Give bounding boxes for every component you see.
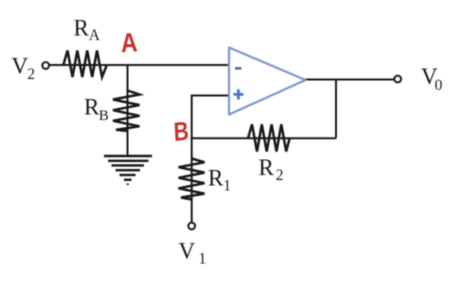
svg-text:B: B [173,116,190,147]
svg-text:R: R [208,165,224,190]
svg-text:A: A [89,27,101,44]
svg-text:B: B [99,108,109,124]
svg-text:1: 1 [223,178,231,195]
svg-text:1: 1 [199,251,207,268]
svg-text:R: R [259,155,275,180]
svg-text:0: 0 [435,77,443,94]
svg-text:V: V [179,239,196,264]
svg-text:2: 2 [27,66,35,83]
svg-text:R: R [84,95,100,120]
svg-text:A: A [120,28,138,59]
svg-text:V: V [12,53,29,78]
svg-text:R: R [74,15,90,40]
svg-text:2: 2 [276,167,284,184]
